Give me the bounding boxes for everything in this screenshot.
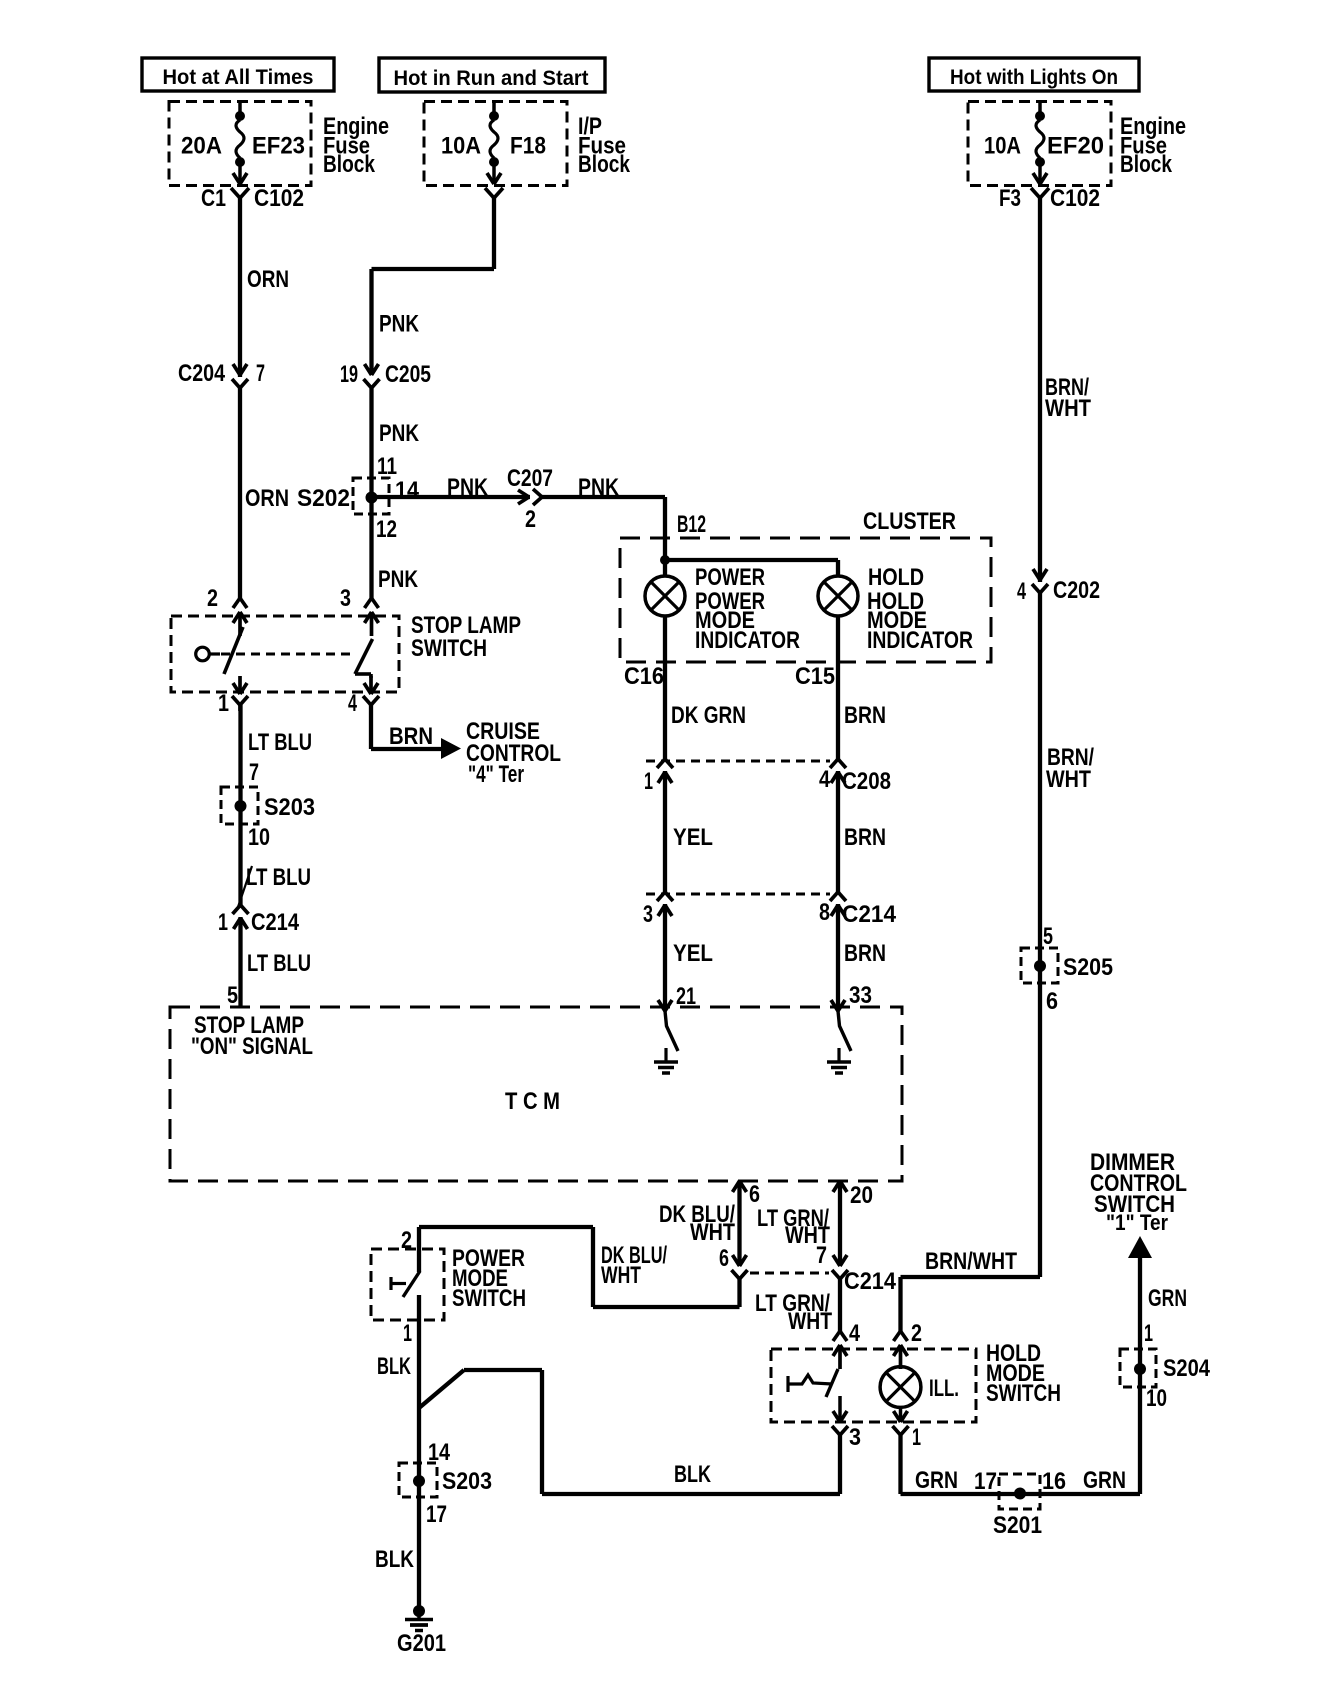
svg-text:INDICATOR: INDICATOR — [867, 627, 973, 654]
connector F3/C102 below EF20 — [1031, 188, 1040, 198]
connector C214 pin 1 — [238, 906, 244, 917]
wire BRN/WHT EF20 to hold mode switch — [1038, 198, 1042, 1277]
dimmer control switch arrow — [1128, 1236, 1152, 1258]
svg-text:PNK: PNK — [578, 474, 620, 501]
svg-text:LT BLU: LT BLU — [247, 950, 311, 977]
node B12 junction — [660, 555, 670, 565]
hold mode switch blade — [826, 1369, 838, 1397]
wire BLK power mode switch pin 1 — [417, 1295, 421, 1611]
wire kink slash — [238, 866, 252, 907]
svg-text:EF20: EF20 — [1047, 133, 1104, 160]
svg-text:1: 1 — [1144, 1320, 1153, 1347]
stop lamp switch left contact — [196, 647, 210, 661]
connector C208 pin 1 — [662, 760, 668, 771]
wire BRN from HOLD lamp — [836, 616, 840, 1007]
svg-text:B12: B12 — [677, 511, 706, 538]
stop lamp switch linkage dashed — [221, 653, 355, 656]
power mode switch pin 2 stub — [417, 1249, 421, 1272]
hold mode switch contact — [786, 1376, 789, 1392]
svg-text:S203: S203 — [264, 794, 315, 821]
svg-text:BLK: BLK — [377, 1353, 411, 1380]
lamp HOLD MODE INDICATOR — [818, 576, 858, 616]
svg-text:10A: 10A — [441, 133, 481, 160]
svg-text:S205: S205 — [1063, 954, 1113, 981]
svg-text:1: 1 — [218, 909, 228, 936]
wire PNK F18 to C205 — [492, 198, 496, 269]
splice S204 — [1120, 1349, 1156, 1387]
svg-text:12: 12 — [376, 516, 397, 543]
wire DK BLU/WHT TCM pin 6 to C214 — [737, 1181, 741, 1266]
wire BRN to cruise control — [369, 705, 373, 749]
svg-text:PNK: PNK — [379, 420, 420, 447]
hold mode switch pin 4 connector — [833, 1331, 840, 1341]
svg-text:4: 4 — [849, 1320, 861, 1347]
svg-text:4: 4 — [348, 690, 357, 717]
svg-text:C214: C214 — [251, 909, 300, 936]
connector C208 dashed line — [646, 760, 830, 763]
power mode switch blade — [403, 1271, 420, 1297]
TCM pin 33 ground — [837, 1048, 840, 1062]
power mode switch dashed box — [371, 1249, 444, 1320]
svg-text:7: 7 — [249, 759, 259, 786]
svg-text:S203: S203 — [442, 1468, 492, 1495]
svg-text:11: 11 — [377, 453, 397, 480]
svg-text:C15: C15 — [795, 663, 835, 690]
node header box: Hot with Lights On — [929, 58, 1139, 91]
wire BLK branch diagonal — [419, 1370, 464, 1408]
svg-text:6: 6 — [749, 1181, 760, 1208]
svg-text:17: 17 — [974, 1468, 997, 1495]
connector below F18 — [485, 188, 494, 198]
stop lamp switch left blade — [224, 627, 243, 674]
svg-text:BLK: BLK — [375, 1546, 415, 1573]
svg-text:10: 10 — [1146, 1385, 1167, 1412]
svg-text:20A: 20A — [181, 133, 222, 160]
svg-text:Hot with Lights On: Hot with Lights On — [950, 66, 1118, 89]
svg-text:33: 33 — [849, 982, 872, 1009]
lamp ILL — [880, 1367, 921, 1408]
connector C208 pin 4 — [835, 760, 841, 771]
power mode switch contact — [389, 1277, 392, 1290]
cluster dashed box — [620, 538, 991, 662]
svg-text:6: 6 — [1046, 988, 1058, 1015]
wire LT GRN/WHT C214 pin7 to hold mode switch — [838, 1279, 842, 1331]
stop lamp switch pin 3 connector — [365, 598, 372, 608]
svg-text:2: 2 — [207, 585, 218, 612]
svg-text:GRN: GRN — [1148, 1285, 1187, 1312]
svg-text:1: 1 — [912, 1424, 921, 1451]
svg-text:Hot in Run and Start: Hot in Run and Start — [394, 67, 589, 90]
connector C214 pin 8 — [835, 893, 841, 904]
svg-text:EF23: EF23 — [252, 133, 305, 160]
wire BLK to hold mode switch pin 3 — [542, 1492, 840, 1496]
svg-text:Block: Block — [578, 151, 631, 178]
svg-text:GRN: GRN — [1083, 1467, 1126, 1494]
svg-text:SWITCH: SWITCH — [411, 635, 487, 662]
TCM pin 21 ground — [664, 1048, 667, 1062]
svg-text:C16: C16 — [624, 663, 664, 690]
svg-text:"ON" SIGNAL: "ON" SIGNAL — [191, 1033, 313, 1060]
svg-text:7: 7 — [816, 1242, 827, 1269]
svg-text:SWITCH: SWITCH — [986, 1380, 1061, 1407]
hold mode switch pin 1 connector — [893, 1426, 901, 1435]
connector C214 dashed line — [646, 893, 830, 896]
ground G201 — [413, 1605, 425, 1617]
connector C214 dashed line bottom — [750, 1272, 829, 1275]
svg-text:C204: C204 — [178, 360, 226, 387]
fuse EF23 20A symbol — [238, 102, 242, 112]
svg-text:5: 5 — [1043, 923, 1053, 950]
engine fuse block EF23 dashed box — [169, 102, 311, 186]
I/P fuse block F18 dashed box — [424, 102, 567, 186]
connector C204 — [237, 377, 243, 386]
cruise control arrow — [441, 738, 461, 759]
connector C214 pin 7 — [832, 1270, 840, 1279]
wire GRN pin 1 to S201 — [898, 1435, 902, 1494]
svg-text:C205: C205 — [385, 361, 431, 388]
svg-text:WHT: WHT — [788, 1308, 832, 1335]
svg-text:WHT: WHT — [690, 1219, 735, 1246]
svg-text:Hot at All Times: Hot at All Times — [163, 66, 314, 89]
connector C214 pin 6 — [732, 1270, 740, 1279]
stop lamp switch pin 1 connector — [238, 676, 242, 694]
lamp POWER MODE INDICATOR — [645, 576, 685, 616]
stop lamp switch pin 4 wire — [369, 674, 373, 678]
svg-text:F18: F18 — [510, 133, 546, 160]
svg-text:PNK: PNK — [378, 566, 419, 593]
wire DK BLU/WHT C214 pin6 to power mode switch — [737, 1279, 741, 1307]
svg-text:4: 4 — [819, 766, 831, 793]
wire PNK S202 to cluster B12 — [372, 495, 666, 499]
stop lamp switch dashed box — [171, 616, 399, 692]
splice S205 — [1021, 948, 1058, 983]
wire ORN C102 to stop lamp switch — [238, 198, 242, 598]
svg-text:S202: S202 — [297, 485, 350, 512]
wire cluster internal — [665, 558, 838, 562]
svg-text:DK GRN: DK GRN — [671, 702, 746, 729]
svg-text:BLK: BLK — [674, 1461, 711, 1488]
wire LT GRN/WHT TCM pin 20 to C214 — [838, 1181, 842, 1266]
svg-text:WHT: WHT — [601, 1262, 641, 1289]
svg-text:LT BLU: LT BLU — [246, 864, 311, 891]
svg-text:3: 3 — [643, 901, 653, 928]
svg-text:BRN: BRN — [389, 723, 433, 750]
svg-text:C102: C102 — [254, 185, 304, 212]
svg-text:BRN: BRN — [844, 702, 886, 729]
wire GRN to dimmer control switch — [1138, 1256, 1142, 1494]
connector C214 pin 3 — [662, 893, 668, 904]
svg-text:2: 2 — [911, 1320, 922, 1347]
svg-text:ORN: ORN — [245, 485, 289, 512]
svg-text:C214: C214 — [844, 1268, 897, 1295]
svg-text:19: 19 — [340, 361, 358, 388]
svg-text:2: 2 — [525, 506, 536, 533]
lamp ILL bottom arrow — [899, 1407, 903, 1420]
svg-text:CLUSTER: CLUSTER — [863, 508, 956, 535]
svg-text:INDICATOR: INDICATOR — [695, 627, 800, 654]
svg-text:C207: C207 — [507, 465, 553, 492]
hold mode switch dashed box — [771, 1349, 976, 1422]
engine fuse block EF20 dashed box — [968, 102, 1111, 186]
svg-text:10A: 10A — [984, 133, 1021, 160]
hold mode switch pin 3 arrow — [838, 1396, 842, 1420]
splice S201 — [999, 1474, 1040, 1509]
svg-text:5: 5 — [227, 982, 238, 1009]
svg-text:1: 1 — [218, 690, 229, 717]
svg-text:7: 7 — [256, 360, 265, 387]
svg-text:GRN: GRN — [915, 1467, 958, 1494]
svg-text:C208: C208 — [842, 768, 891, 795]
hold mode switch pin 2 connector — [894, 1331, 901, 1341]
connector C1/C102 below EF23 — [231, 188, 240, 198]
svg-text:WHT: WHT — [1046, 766, 1091, 793]
wire PNK C205 to stop lamp switch — [369, 388, 373, 598]
wire DK GRN from POWER lamp — [663, 616, 667, 1007]
svg-text:SWITCH: SWITCH — [452, 1285, 526, 1312]
svg-text:F3: F3 — [999, 185, 1021, 212]
svg-text:1: 1 — [403, 1320, 412, 1347]
svg-text:C1: C1 — [201, 185, 226, 212]
node header box: Hot in Run and Start — [379, 58, 605, 92]
stop lamp switch pin 4 connector — [369, 676, 373, 694]
svg-text:PNK: PNK — [447, 474, 489, 501]
TCM pin 33 entry arrow — [831, 1000, 838, 1011]
svg-text:C202: C202 — [1053, 577, 1100, 604]
svg-text:"1" Ter: "1" Ter — [1106, 1210, 1168, 1235]
svg-text:BRN: BRN — [844, 824, 886, 851]
svg-text:T C M: T C M — [505, 1088, 560, 1115]
svg-text:C214: C214 — [842, 901, 897, 928]
svg-text:WHT: WHT — [1045, 395, 1091, 422]
wire pin 3 to BLK — [838, 1435, 842, 1494]
TCM dashed box — [170, 1007, 902, 1181]
connector C202 — [1037, 582, 1043, 591]
svg-text:10: 10 — [248, 824, 270, 851]
node header box: Hot at All Times — [142, 58, 334, 91]
svg-text:BRN/WHT: BRN/WHT — [925, 1248, 1017, 1275]
svg-text:BRN: BRN — [844, 940, 886, 967]
svg-text:HOLD: HOLD — [868, 564, 924, 591]
wire LT BLU stop lamp switch to TCM — [238, 705, 242, 1007]
svg-text:POWER: POWER — [695, 564, 765, 591]
svg-text:ILL.: ILL. — [929, 1375, 959, 1402]
TCM pin 21 entry arrow — [658, 1000, 665, 1011]
svg-text:20: 20 — [850, 1182, 873, 1209]
svg-text:16: 16 — [1042, 1468, 1066, 1495]
svg-text:PNK: PNK — [379, 311, 420, 338]
svg-text:"4" Ter: "4" Ter — [468, 761, 524, 788]
splice S203 — [399, 1463, 437, 1497]
svg-text:C102: C102 — [1050, 185, 1100, 212]
svg-text:17: 17 — [426, 1501, 447, 1528]
svg-text:G201: G201 — [397, 1630, 446, 1657]
fuse EF20 10A symbol — [1038, 102, 1042, 112]
stop lamp switch pin 2 connector — [233, 598, 240, 608]
hold mode switch pin 3 connector — [832, 1426, 840, 1435]
svg-text:S204: S204 — [1163, 1355, 1211, 1382]
connector C207 — [530, 494, 541, 500]
svg-text:Block: Block — [1120, 151, 1173, 178]
TCM pin 21 switch blade — [665, 1011, 678, 1051]
splice S203 — [221, 787, 258, 824]
svg-text:YEL: YEL — [673, 824, 713, 851]
stop lamp switch right blade — [355, 639, 373, 674]
svg-text:YEL: YEL — [673, 940, 713, 967]
TCM pin 33 switch blade — [838, 1011, 851, 1051]
svg-text:LT BLU: LT BLU — [248, 729, 312, 756]
svg-text:1: 1 — [644, 768, 653, 795]
svg-text:8: 8 — [819, 899, 830, 926]
svg-text:ORN: ORN — [247, 266, 289, 293]
svg-text:4: 4 — [1017, 578, 1026, 605]
fuse F18 10A symbol — [492, 102, 496, 112]
svg-text:S201: S201 — [993, 1512, 1042, 1539]
svg-text:6: 6 — [719, 1245, 729, 1272]
connector C205 — [369, 377, 375, 386]
svg-text:14: 14 — [395, 477, 420, 504]
svg-text:Block: Block — [323, 151, 376, 178]
svg-text:3: 3 — [849, 1424, 861, 1451]
svg-text:3: 3 — [340, 585, 351, 612]
